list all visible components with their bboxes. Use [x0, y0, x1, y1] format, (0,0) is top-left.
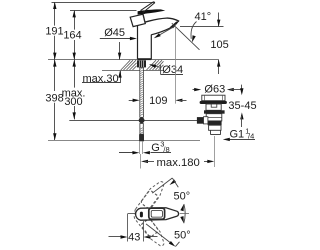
- svg-text:50°: 50°: [174, 190, 191, 202]
- svg-text:164: 164: [63, 30, 81, 42]
- drain tailpipe G1 1/4: [210, 130, 221, 134]
- drain lower dark band: [208, 121, 222, 125]
- lever horizontal (filled): [138, 9, 166, 14]
- svg-text:41°: 41°: [195, 11, 212, 23]
- svg-text:109: 109: [149, 95, 167, 107]
- label G1 1/4 with leader: [223, 126, 255, 141]
- reference line max300 bottom / pop-up rod: [69, 120, 200, 122]
- lever pivot block: [130, 14, 145, 26]
- bottom view: dashed handle rotated down: [132, 207, 168, 249]
- rotation arc: [180, 204, 185, 224]
- mounting nut below counter: [137, 60, 146, 67]
- dimension O63: [193, 84, 242, 96]
- label O45 with leader: [100, 27, 137, 40]
- label G3/8 with leader: [119, 139, 171, 154]
- extension lines below rod for max180: [140, 136, 215, 169]
- outlet extension line: [175, 25, 177, 104]
- svg-text:G1: G1: [230, 129, 245, 141]
- extension line lever horizontal level: [70, 10, 137, 12]
- drain lower body: [209, 125, 221, 130]
- center line right of handle tip: [180, 213, 189, 215]
- supply nipple G3/8 end: [139, 134, 144, 141]
- bottom view: handle solid: [136, 208, 179, 220]
- counter top line: [48, 59, 219, 61]
- threaded shank lower: [140, 124, 143, 135]
- angle leg 41 down-right: [172, 23, 200, 50]
- dimension 191: [45, 2, 63, 60]
- reference line 398 bottom: [48, 140, 200, 142]
- drain side port connector: [204, 117, 208, 124]
- dimension 398: [45, 60, 63, 141]
- label 50 deg top: [152, 178, 190, 202]
- svg-text:35-45: 35-45: [228, 100, 256, 112]
- hose nut (dark) at drain port: [197, 117, 204, 124]
- ball joint on rod: [139, 117, 145, 123]
- dimension max.180: [141, 157, 214, 169]
- svg-text:/4: /4: [248, 131, 254, 140]
- svg-text:max.180: max.180: [157, 157, 200, 169]
- drain seal (dark): [200, 101, 227, 104]
- svg-text:Ø63: Ø63: [204, 84, 225, 96]
- svg-text:Ø45: Ø45: [104, 27, 125, 39]
- lever hinge arc: [144, 11, 148, 14]
- angle leg toward body: [153, 26, 175, 39]
- drain upper body: [206, 104, 221, 110]
- dimension 35-45: [228, 85, 256, 127]
- svg-text:105: 105: [210, 39, 228, 51]
- dimension 109: [129, 95, 187, 107]
- drain mid body: [206, 114, 222, 121]
- faucet body: [138, 26, 152, 60]
- svg-text:191: 191: [45, 26, 63, 38]
- dimension max.300: [62, 60, 86, 120]
- counter bottom line: [102, 70, 164, 72]
- svg-text:max.30: max.30: [83, 73, 119, 85]
- dimension 164: [63, 10, 81, 59]
- svg-text:50°: 50°: [174, 230, 191, 242]
- dimension max.30: [82, 42, 122, 85]
- svg-text:300: 300: [64, 96, 82, 108]
- drain lock nut (dark): [204, 110, 225, 113]
- threaded shank upper: [140, 67, 144, 117]
- screw dot on handle: [140, 212, 143, 218]
- label 50 deg bottom: [146, 224, 191, 248]
- extension line top (lever raised tip level): [52, 2, 155, 4]
- label 41 deg with curved leader: [190, 11, 211, 43]
- dimension 105: [180, 13, 229, 75]
- lever raised outline (41 deg): [141, 2, 155, 13]
- faucet spout: [135, 18, 180, 35]
- drain flange: [202, 95, 225, 101]
- counter hatching left: [121, 60, 137, 70]
- dimension 43: [109, 214, 158, 244]
- label O34 with leader: [149, 63, 184, 76]
- counter hatching right: [147, 60, 164, 70]
- bottom view: dashed handle rotated up: [132, 179, 168, 221]
- svg-text:43: 43: [128, 232, 140, 244]
